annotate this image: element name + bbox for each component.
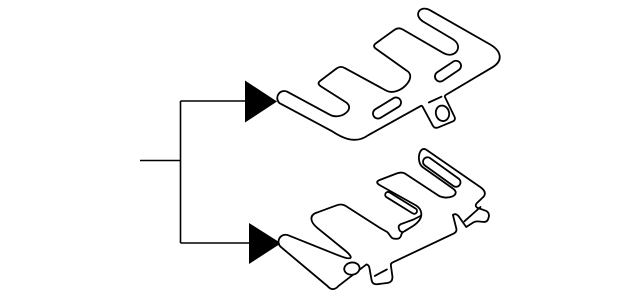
bottom part hole: [343, 261, 360, 275]
bottom part: heat shield outline: [279, 149, 489, 289]
wire vertical: [180, 101, 182, 243]
top part slot lower: [373, 97, 401, 118]
wire stub left: [140, 160, 181, 162]
bottom part finger slot: [423, 157, 461, 187]
wire top horizontal: [181, 100, 246, 102]
bottom part narrow slit: [385, 192, 417, 214]
bottom tab fold line: [375, 269, 387, 276]
top tab hole: [434, 104, 451, 122]
top part slot upper: [435, 61, 461, 82]
top tab step line: [429, 97, 442, 103]
arrow 1: [245, 81, 277, 123]
wire: pointer bracket: [140, 101, 249, 243]
bottom part hanging tab B: [399, 206, 440, 241]
wire bottom horizontal: [181, 242, 250, 244]
top part: heat shield outline: [277, 9, 499, 140]
arrow 2: [249, 223, 281, 264]
hook fold line: [464, 207, 480, 221]
